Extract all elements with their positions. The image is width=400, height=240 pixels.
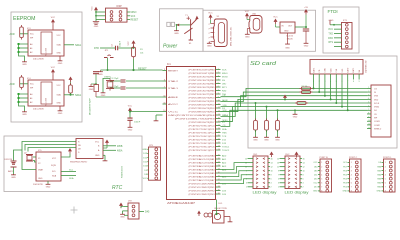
svg-text:(PCINT21/TOSC1)PC5: (PCINT21/TOSC1)PC5 (189, 143, 216, 145)
svg-text:26: 26 (218, 158, 220, 160)
switch T1 (190, 19, 192, 30)
sd socket footprint (310, 60, 363, 75)
vcc MCU decouple (128, 106, 133, 113)
svg-text:(PCINT5/ADC5/X1)PA5: (PCINT5/ADC5/X1)PA5 (189, 172, 216, 175)
wire reg out (295, 26, 306, 28)
wire ADR IC4 (20, 83, 29, 85)
svg-text:2: 2 (218, 72, 219, 74)
svg-text:8: 8 (218, 93, 219, 95)
ground IC4 right (59, 106, 61, 110)
ic IC6 RS485 (76, 139, 103, 159)
header PORT B (320, 159, 332, 192)
svg-text:28: 28 (218, 165, 220, 167)
vcc VCC IC3 (51, 17, 56, 24)
svg-text:15: 15 (277, 158, 279, 160)
svg-text:(PCINT17/TOSC1)PC1: (PCINT17/TOSC1)PC1 (189, 129, 216, 131)
svg-text:36: 36 (218, 193, 220, 195)
svg-text:(PCINT11/XBKL/TXD0)PE3: (PCINT11/XBKL/TXD0)PE3 (175, 118, 216, 120)
svg-text:5: 5 (218, 82, 219, 84)
resistor R6 (300, 91, 313, 94)
svg-text:(PCINT13/XCK0/T5)PB5: (PCINT13/XCK0/T5)PB5 (189, 87, 216, 89)
svg-text:SDA: SDA (222, 128, 227, 131)
svg-text:RESET: RESET (168, 70, 179, 72)
svg-text:4: 4 (271, 183, 272, 185)
svg-text:(PCINT3/OC2B/ICP)PE3: (PCINT3/OC2B/ICP)PE3 (189, 194, 216, 196)
svg-text:VCC: VCC (273, 17, 278, 19)
svg-text:VCC: VCC (245, 11, 250, 13)
svg-text:7: 7 (385, 187, 386, 189)
svg-text:SD card: SD card (250, 61, 277, 67)
svg-text:VCC: VCC (51, 67, 56, 69)
svg-text:VDD: VDD (374, 99, 379, 101)
svg-text:12: 12 (303, 166, 305, 168)
svg-text:22: 22 (218, 142, 220, 144)
wires MCU to SV1 (221, 163, 248, 184)
svg-text:VCC: VCC (128, 41, 130, 46)
svg-text:30: 30 (218, 172, 220, 174)
svg-text:1: 1 (368, 87, 369, 89)
wires ICSP right (127, 11, 130, 13)
switch S2 (184, 28, 192, 34)
wire JP2 out (139, 211, 144, 213)
svg-text:GND: GND (57, 53, 62, 55)
svg-text:9: 9 (359, 81, 360, 83)
svg-text:24LC256: 24LC256 (46, 47, 48, 56)
ground IC3 right (59, 56, 61, 60)
svg-text:D45: D45 (145, 211, 150, 214)
svg-text:(PCINT27/RXD0/T3)PD3: (PCINT27/RXD0/T3)PD3 (189, 108, 216, 110)
wires sd socket drops (313, 80, 349, 112)
vcc X1 (208, 12, 213, 19)
svg-text:GND: GND (285, 48, 290, 50)
svg-text:GND: GND (120, 217, 125, 219)
svg-text:11: 11 (218, 103, 220, 105)
svg-text:IC1: IC1 (167, 63, 171, 66)
svg-text:5: 5 (385, 178, 386, 180)
svg-text:RTS: RTS (328, 42, 333, 44)
svg-text:GND: GND (94, 26, 99, 28)
vcc +5V (304, 7, 308, 14)
svg-text:TMS: TMS (222, 132, 227, 134)
svg-text:6: 6 (218, 86, 219, 88)
svg-text:(PCINT3/ADC3/X1)PA3: (PCINT3/ADC3/X1)PA3 (189, 165, 216, 168)
svg-text:2: 2 (321, 166, 322, 168)
svg-text:16: 16 (271, 158, 273, 160)
svg-text:11: 11 (277, 166, 279, 168)
svg-text:GND: GND (58, 63, 63, 65)
svg-text:VBAT: VBAT (38, 169, 44, 172)
svg-text:VCC: VCC (57, 35, 62, 37)
svg-text:VDD: VDD (223, 105, 228, 107)
svg-text:VSS2: VSS2 (374, 107, 380, 109)
svg-text:+5V: +5V (304, 7, 308, 9)
svg-text:TOSC2: TOSC2 (222, 150, 230, 152)
svg-text:MEGA48/88/TQFP: MEGA48/88/TQFP (89, 98, 92, 115)
svg-text:8: 8 (164, 80, 165, 82)
resistor R7 (295, 102, 308, 105)
svg-text:8: 8 (271, 175, 272, 177)
svg-text:FTDI: FTDI (328, 9, 338, 14)
svg-text:(PCINT8/XCK0/T0)PB0: (PCINT8/XCK0/T0)PB0 (189, 69, 216, 71)
svg-text:485A: 485A (117, 149, 123, 152)
svg-text:10: 10 (368, 120, 370, 122)
svg-text:MISO: MISO (222, 73, 228, 75)
svg-text:29: 29 (218, 168, 220, 170)
net labels MCU right (222, 69, 230, 195)
frame EEPROM (11, 12, 82, 122)
svg-text:20: 20 (218, 135, 220, 137)
svg-text:GND: GND (304, 46, 309, 48)
svg-text:13: 13 (218, 110, 220, 112)
svg-text:GND: GND (293, 117, 298, 119)
wires IC6 left (22, 142, 76, 151)
frame Power (160, 9, 204, 52)
svg-text:9: 9 (278, 170, 279, 172)
svg-text:9: 9 (218, 96, 219, 98)
ground JP1 (98, 71, 103, 76)
pins X1 (209, 23, 215, 43)
svg-text:(PCINT19/TOSC1)PC3: (PCINT19/TOSC1)PC3 (189, 136, 216, 138)
svg-text:(PCINT1/OC2B/ICP)PE1: (PCINT1/OC2B/ICP)PE1 (189, 187, 216, 189)
svg-text:16: 16 (218, 121, 220, 123)
svg-text:ADR: ADR (10, 33, 15, 36)
svg-text:3: 3 (385, 170, 386, 172)
svg-text:VCC: VCC (92, 6, 94, 11)
pins MCU right (168, 68, 221, 196)
resistor R1 10k (133, 47, 135, 49)
frame FTDI (323, 7, 359, 53)
svg-text:13: 13 (277, 162, 279, 164)
svg-text:(PCINT25/RXD0/T3)PD1: (PCINT25/RXD0/T3)PD1 (189, 101, 216, 103)
svg-text:12: 12 (271, 166, 273, 168)
svg-text:VSS: VSS (374, 96, 379, 98)
svg-text:15: 15 (245, 158, 247, 160)
frame USB section (203, 10, 316, 51)
svg-text:485B: 485B (117, 146, 123, 148)
svg-text:6: 6 (368, 105, 369, 107)
svg-text:25: 25 (218, 154, 220, 156)
svg-text:(PCINT11/XCK0/T3)PB3: (PCINT11/XCK0/T3)PB3 (189, 80, 216, 82)
svg-text:10: 10 (163, 110, 165, 112)
svg-text:18: 18 (218, 128, 220, 130)
header PORT D (384, 159, 396, 192)
svg-text:GND: GND (264, 140, 269, 142)
svg-text:24LC256N: 24LC256N (33, 109, 44, 111)
origin cross (71, 207, 78, 214)
ic IC5 DS1307 (36, 152, 61, 181)
svg-text:VCC: VCC (51, 17, 56, 19)
resistor R3 SDA pullup (69, 77, 73, 83)
svg-text:8: 8 (385, 191, 386, 193)
svg-text:GND: GND (343, 191, 348, 193)
vcc JP2 (119, 203, 123, 209)
ground ICSP (93, 22, 99, 29)
svg-text:(PCINT4/ADC4/X1)PA4: (PCINT4/ADC4/X1)PA4 (189, 168, 216, 171)
svg-text:4: 4 (385, 174, 386, 176)
svg-text:30: 30 (163, 103, 165, 105)
svg-text:(PCINT7/ADC7/X1)PA7: (PCINT7/ADC7/X1)PA7 (189, 179, 216, 182)
inductor L1 (94, 85, 99, 92)
svg-text:1: 1 (385, 162, 386, 164)
svg-text:SCK: SCK (223, 110, 228, 112)
svg-text:GND: GND (46, 187, 51, 189)
svg-text:10: 10 (218, 100, 220, 102)
wires A-pins IC3 (19, 44, 29, 61)
svg-text:SDA: SDA (75, 43, 81, 47)
svg-text:9: 9 (164, 69, 165, 71)
svg-text:2: 2 (368, 91, 369, 93)
resistor R10 pullup (277, 110, 279, 120)
header ICSP SV6 (106, 8, 128, 22)
crystal Q1 (126, 80, 163, 82)
svg-text:GND: GND (22, 64, 27, 66)
frame RTC (4, 136, 142, 192)
svg-text:ATMEGA644P: ATMEGA644P (167, 202, 196, 205)
wires MCU to SD bundle (221, 88, 368, 127)
svg-text:LED: LED (222, 83, 227, 85)
svg-text:VCC: VCC (328, 29, 333, 31)
battery BT1 (11, 157, 17, 174)
ground power-in (176, 25, 178, 30)
svg-text:31: 31 (218, 175, 220, 177)
svg-text:PORT B: PORT B (320, 157, 329, 159)
svg-text:SDA: SDA (75, 93, 81, 97)
svg-text:DTR: DTR (94, 47, 99, 50)
svg-text:U$2 MMC-SD: U$2 MMC-SD (366, 60, 368, 73)
svg-text:8: 8 (321, 191, 322, 193)
svg-text:3: 3 (321, 170, 322, 172)
wire FTDI gnd (330, 24, 334, 26)
svg-text:(PCINT2/ADC2/X1)PA2: (PCINT2/ADC2/X1)PA2 (189, 161, 216, 164)
svg-text:(PCINT9/XCK0/T1)PB1: (PCINT9/XCK0/T1)PB1 (189, 73, 216, 75)
svg-text:(PCINT1/ADC1/X1)PA1: (PCINT1/ADC1/X1)PA1 (189, 158, 216, 161)
svg-text:(PCINT31/RXD0/T3)PD7: (PCINT31/RXD0/T3)PD7 (189, 122, 216, 124)
svg-text:33: 33 (218, 182, 220, 184)
svg-text:AVCC: AVCC (168, 103, 179, 106)
svg-text:GND: GND (22, 114, 27, 116)
svg-text:19: 19 (218, 131, 220, 133)
vcc reg in (273, 17, 278, 24)
svg-text:COM1: COM1 (374, 121, 381, 123)
svg-text:6: 6 (321, 183, 322, 185)
svg-text:SDA: SDA (57, 44, 62, 47)
svg-text:ICSP: ICSP (116, 6, 122, 8)
vcc IC6 (105, 140, 109, 146)
svg-text:VCC: VCC (52, 158, 57, 160)
frame SD card (248, 56, 397, 148)
sd logical connector (371, 85, 391, 137)
svg-text:MISO: MISO (131, 12, 137, 14)
capacitor C8 (93, 72, 99, 74)
svg-text:14: 14 (271, 162, 273, 164)
svg-text:p: p (209, 37, 210, 39)
svg-text:(PCINT0/ADC0/X1)PA0: (PCINT0/ADC0/X1)PA0 (189, 154, 216, 157)
svg-text:2: 2 (303, 187, 304, 189)
wire JP1 down (107, 58, 109, 70)
svg-text:4: 4 (218, 79, 219, 81)
header JP3 (149, 147, 161, 180)
resistor pulldown IC4 (20, 75, 24, 90)
svg-text:8: 8 (303, 175, 304, 177)
svg-text:32: 32 (163, 96, 165, 98)
svg-text:(PCINT6/ADC6/X1)PA6: (PCINT6/ADC6/X1)PA6 (189, 175, 216, 178)
resistor R8 pullup (255, 103, 257, 121)
svg-text:PORT C: PORT C (349, 157, 358, 159)
svg-text:(PCINT10/XCK0/T2)PB2: (PCINT10/XCK0/T2)PB2 (189, 76, 216, 78)
svg-text:DS1220: DS1220 (5, 159, 13, 161)
capacitor C4 100n (116, 46, 118, 51)
svg-text:DAT0: DAT0 (347, 68, 350, 73)
connector X2 USB (249, 16, 262, 34)
ground crystal (103, 78, 110, 92)
wire SDA IC3 (64, 44, 74, 46)
svg-text:5: 5 (368, 102, 369, 104)
svg-text:(PCINT23/TOSC1)PC7: (PCINT23/TOSC1)PC7 (189, 150, 216, 152)
header JP2 (128, 203, 139, 219)
vcc SV2 (295, 152, 299, 158)
svg-text:GND: GND (89, 89, 94, 91)
svg-text:GND: GND (57, 103, 62, 105)
svg-text:5: 5 (321, 178, 322, 180)
svg-text:(PCINT15/XCK0/T7)PB7: (PCINT15/XCK0/T7)PB7 (189, 94, 216, 96)
svg-text:7: 7 (368, 109, 369, 111)
junction dots bundle (255, 102, 257, 104)
ic IC3 24LC256 (28, 30, 64, 56)
svg-text:ADR: ADR (10, 83, 15, 86)
svg-text:4: 4 (321, 174, 322, 176)
svg-text:3: 3 (218, 75, 219, 77)
svg-text:24LC256N: 24LC256N (33, 59, 44, 61)
svg-text:3: 3 (351, 170, 352, 172)
svg-text:VCC: VCC (95, 142, 100, 144)
svg-text:MINI-USB-32005-201: MINI-USB-32005-201 (231, 26, 233, 46)
header SV1 (253, 156, 268, 189)
svg-text:14: 14 (303, 162, 305, 164)
button S3 (213, 211, 225, 224)
svg-text:6: 6 (271, 179, 272, 181)
svg-text:SDA: SDA (52, 175, 57, 178)
svg-text:GND: GND (275, 140, 280, 142)
svg-text:SCLK: SCLK (374, 103, 380, 105)
svg-text:TXD: TXD (328, 34, 333, 36)
svg-text:7: 7 (351, 187, 352, 189)
svg-text:24LC256: 24LC256 (46, 97, 48, 106)
svg-text:1: 1 (246, 187, 247, 189)
svg-text:GND: GND (128, 130, 133, 132)
svg-text:CMD: CMD (325, 68, 327, 73)
svg-text:R5 10k: R5 10k (302, 86, 308, 88)
resistor pulldown IC3 (20, 25, 24, 40)
svg-text:DO: DO (374, 110, 377, 112)
svg-text:Power: Power (163, 44, 178, 50)
svg-text:(PCINT18/TOSC1)PC2: (PCINT18/TOSC1)PC2 (189, 132, 216, 134)
svg-text:(PCINT28/RXD0/T3)PD4: (PCINT28/RXD0/T3)PD4 (189, 111, 216, 113)
svg-text:2: 2 (385, 166, 386, 168)
svg-text:4: 4 (368, 98, 369, 100)
svg-text:GND: GND (207, 46, 212, 48)
svg-text:p: p (209, 32, 210, 34)
svg-text:12: 12 (218, 107, 220, 109)
svg-text:8: 8 (351, 191, 352, 193)
svg-text:EEPROM: EEPROM (13, 16, 35, 22)
wire RESET (101, 69, 163, 71)
svg-text:SDA: SDA (69, 177, 74, 180)
wires IC6 right (103, 145, 116, 147)
pins MCU left (163, 69, 180, 113)
svg-text:INT1: INT1 (222, 87, 228, 89)
svg-text:GND: GND (284, 31, 289, 33)
wire power-in (179, 24, 191, 26)
svg-text:LED display: LED display (253, 190, 278, 194)
svg-text:GND: GND (142, 149, 147, 151)
svg-text:GND: GND (313, 191, 318, 193)
svg-text:5: 5 (351, 178, 352, 180)
svg-text:10: 10 (271, 170, 273, 172)
svg-text:8: 8 (368, 113, 369, 115)
svg-text:3: 3 (278, 183, 279, 185)
svg-text:11: 11 (368, 124, 370, 126)
svg-text:(PCINT22/TOSC1)PC6: (PCINT22/TOSC1)PC6 (189, 146, 216, 148)
svg-text:(PCINT12/XCK0/T4)PB4: (PCINT12/XCK0/T4)PB4 (189, 83, 216, 85)
svg-text:24: 24 (218, 149, 220, 151)
arrow input (176, 24, 179, 27)
svg-text:SDA: SDA (57, 94, 62, 97)
svg-text:COM2: COM2 (374, 125, 381, 127)
svg-text:(PCINT20/TOSC1)PC4: (PCINT20/TOSC1)PC4 (189, 139, 216, 141)
svg-text:4: 4 (303, 183, 304, 185)
ground X2 (247, 28, 250, 30)
ground IC3 left (22, 61, 27, 66)
svg-text:p: p (209, 23, 210, 25)
svg-text:34: 34 (218, 186, 220, 188)
wire ADR IC3 (20, 33, 29, 35)
ground C8 (91, 83, 96, 85)
svg-text:16: 16 (303, 158, 305, 160)
svg-text:1: 1 (278, 187, 279, 189)
svg-text:14: 14 (218, 114, 220, 116)
svg-text:GND: GND (11, 177, 16, 179)
ground reg (287, 33, 289, 44)
svg-text:27: 27 (218, 161, 220, 163)
vcc VCC IC4 (51, 67, 56, 74)
svg-text:RESET: RESET (131, 20, 139, 22)
svg-text:(PCINT24/RXD0/T3)PD0: (PCINT24/RXD0/T3)PD0 (189, 97, 216, 99)
ground C6 (128, 127, 133, 132)
svg-text:100nF: 100nF (134, 122, 141, 124)
svg-text:(PCINT14/XCK0/T6)PB6: (PCINT14/XCK0/T6)PB6 (189, 90, 216, 92)
svg-text:1: 1 (218, 68, 219, 70)
svg-text:VCC: VCC (57, 85, 62, 87)
resistor R9 pullup (266, 107, 268, 121)
svg-text:VCC: VCC (168, 111, 179, 113)
svg-text:1: 1 (321, 162, 322, 164)
arrow S3 (197, 211, 201, 214)
svg-text:SQW: SQW (51, 165, 56, 167)
svg-text:17: 17 (218, 124, 220, 126)
wires SCL SDA rtc (61, 171, 76, 173)
svg-text:7: 7 (164, 87, 165, 89)
svg-text:PORT D: PORT D (383, 157, 392, 159)
svg-text:GND: GND (245, 37, 250, 39)
svg-text:VCC: VCC (143, 178, 148, 180)
svg-text:3: 3 (368, 94, 369, 96)
svg-text:100nF: 100nF (120, 40, 122, 47)
svg-text:(PCINT0/OC2B/ICP)PE0: (PCINT0/OC2B/ICP)PE0 (189, 183, 216, 185)
svg-text:GND: GND (58, 113, 63, 115)
ground IC4 left (22, 111, 27, 116)
ic IC2 78L05 (280, 22, 295, 33)
svg-text:XTAL2: XTAL2 (168, 80, 179, 83)
